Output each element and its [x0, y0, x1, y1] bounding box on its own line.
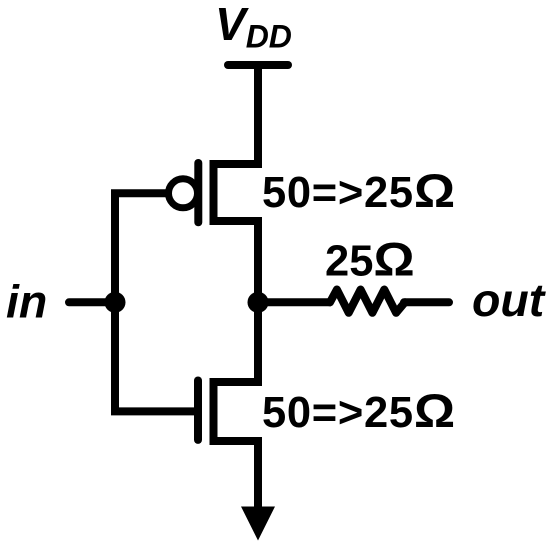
node: output junction dot — [248, 292, 269, 313]
PMOS M1 gate bar — [194, 163, 202, 222]
VDD supply bar — [228, 61, 288, 69]
wire: resistor to out terminal — [404, 298, 449, 306]
ground/negative-supply arrow head — [241, 507, 275, 541]
svg-text:25: 25 — [325, 238, 373, 286]
VDD net label — [215, 0, 292, 55]
node: input junction dot — [105, 292, 126, 313]
wire: PMOS drain to output node — [254, 217, 262, 302]
NMOS M2 channel/body bracket — [214, 382, 259, 441]
svg-text:Ω: Ω — [414, 385, 455, 438]
NMOS M2 gate bar — [194, 381, 202, 440]
svg-text:50=>25: 50=>25 — [262, 169, 414, 217]
svg-text:in: in — [6, 276, 47, 328]
wire: gate net (PMOS gate, left rail, NMOS gate) — [115, 193, 194, 411]
svg-text:out: out — [472, 274, 547, 326]
PMOS M1 channel/body bracket — [214, 164, 259, 221]
svg-text:Ω: Ω — [414, 165, 455, 218]
svg-text:Ω: Ω — [374, 233, 415, 286]
wire: NMOS source to ground arrow — [254, 437, 262, 509]
resistor R1 zigzag — [330, 290, 405, 313]
wire: VDD bar to PMOS source — [254, 65, 262, 168]
PMOS M1 gate bubble — [169, 179, 198, 208]
wire: in terminal lead — [69, 298, 115, 306]
wire: output node to NMOS drain — [254, 302, 262, 386]
svg-text:50=>25: 50=>25 — [262, 389, 414, 437]
wire: output node to resistor — [258, 298, 331, 306]
